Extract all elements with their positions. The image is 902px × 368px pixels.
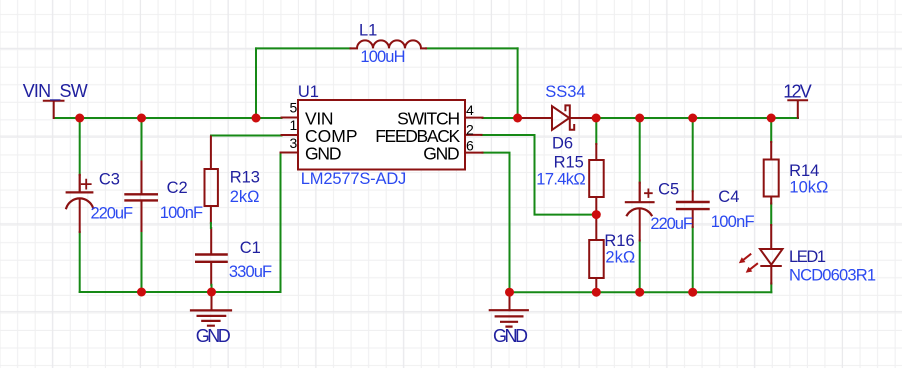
designator C3 <box>99 170 120 188</box>
wire C2 top drop <box>141 118 143 162</box>
svg-text:10kΩ: 10kΩ <box>789 179 828 197</box>
svg-text:C1: C1 <box>240 239 261 257</box>
value LM2577S-ADJ <box>301 170 407 188</box>
wire C1 bottom to rail <box>211 285 213 292</box>
capacitor C4 <box>677 191 708 227</box>
inductor L1 <box>351 40 427 48</box>
node junction rail/C5 <box>635 288 644 297</box>
capacitor C1 <box>196 228 226 285</box>
pin name GND right <box>423 144 460 164</box>
svg-text:C2: C2 <box>167 179 188 197</box>
svg-text:VIN_SW: VIN_SW <box>23 81 88 102</box>
wire C2 bottom to rail <box>141 231 143 292</box>
svg-text:2kΩ: 2kΩ <box>605 248 635 266</box>
node junction out/C5 <box>635 114 644 123</box>
svg-text:100nF: 100nF <box>160 204 203 222</box>
pin 3 stub <box>281 152 299 154</box>
svg-text:LM2577S-ADJ: LM2577S-ADJ <box>301 170 407 188</box>
node junction rail/GND1 <box>207 288 216 297</box>
node junction rail/GND2 <box>505 288 514 297</box>
svg-text:17.4kΩ: 17.4kΩ <box>536 170 585 188</box>
wire C5 top drop <box>639 118 641 183</box>
value SS34 <box>545 83 585 101</box>
svg-text:R15: R15 <box>554 153 584 171</box>
net label GND left <box>196 326 231 346</box>
resistor R16 <box>589 215 604 293</box>
net label VIN_SW <box>23 81 88 102</box>
node junction VIN/C2 <box>137 114 146 123</box>
svg-text:D6: D6 <box>552 134 573 152</box>
wire C3 top drop <box>79 118 81 175</box>
pin number 4 <box>466 102 474 118</box>
pin name SWITCH <box>397 109 460 129</box>
wire L1 left riser <box>255 48 257 118</box>
pin 6 stub <box>465 152 483 154</box>
designator C4 <box>718 188 739 206</box>
designator C1 <box>240 239 261 257</box>
wire C4 bottom to rail <box>692 227 694 292</box>
node junction SWITCH/L1 <box>513 114 522 123</box>
designator R15 <box>554 153 584 171</box>
svg-text:GND: GND <box>493 326 528 346</box>
wire COMP to R13 <box>211 135 282 137</box>
svg-text:220uF: 220uF <box>91 204 134 222</box>
wire VIN_SW main horizontal <box>54 117 282 119</box>
svg-text:C4: C4 <box>718 188 739 206</box>
svg-text:C3: C3 <box>99 170 120 188</box>
pin 1 stub <box>282 134 299 136</box>
wire C3 bottom to rail <box>79 232 81 292</box>
wire L1 top right segment <box>426 47 518 49</box>
pin 4 stub <box>465 117 483 119</box>
value 330uF C1 <box>229 263 272 281</box>
wire pin3 GND down to rail <box>280 153 282 293</box>
net label 12V <box>783 82 812 102</box>
svg-text:220uF: 220uF <box>650 215 693 233</box>
wire right ground rail <box>510 291 772 293</box>
svg-text:L1: L1 <box>359 22 377 40</box>
resistor R14 <box>764 142 779 249</box>
svg-text:12V: 12V <box>783 82 812 102</box>
designator C5 <box>658 181 679 199</box>
op-amp U1 LM2577S-ADJ body <box>298 100 465 170</box>
capacitor C3 <box>66 175 93 232</box>
resistor R15 <box>589 144 604 215</box>
value 100uH <box>360 48 405 66</box>
pin 5 stub <box>282 117 299 119</box>
ground GND2 <box>490 292 528 326</box>
node junction feedback divider <box>592 210 601 219</box>
value 10kΩ <box>789 179 828 197</box>
pin 2 stub <box>465 134 482 136</box>
svg-text:GND: GND <box>305 144 342 164</box>
wire L1 right riser to SWITCH node <box>517 48 519 118</box>
svg-text:LED1: LED1 <box>789 248 826 266</box>
svg-text:330uF: 330uF <box>229 263 272 281</box>
wire left ground rail <box>80 291 281 293</box>
svg-text:100nF: 100nF <box>711 213 755 231</box>
pin number 6 <box>466 137 474 153</box>
wire C4 top drop <box>692 118 694 191</box>
power flag 12V <box>788 100 807 117</box>
designator C2 <box>167 179 188 197</box>
wire LED1 bottom to rail <box>770 284 772 293</box>
pin number 1 <box>290 117 298 133</box>
wire SWITCH pin to node <box>483 117 518 119</box>
value 220uF C3 <box>91 204 134 222</box>
svg-text:2: 2 <box>466 121 474 137</box>
svg-text:1: 1 <box>290 117 298 133</box>
resistor R13 <box>205 137 218 224</box>
svg-text:GND: GND <box>196 326 231 346</box>
value 2kΩ R16 <box>605 248 635 266</box>
diode D6 SS34 <box>518 105 592 129</box>
designator D6 <box>552 134 573 152</box>
value 100nF C4 <box>711 213 755 231</box>
svg-text:R16: R16 <box>604 232 634 250</box>
capacitor C2 <box>126 162 157 232</box>
value 100nF C2 <box>160 204 203 222</box>
designator U1 <box>298 83 319 101</box>
svg-text:R14: R14 <box>789 162 819 180</box>
wire C5 bottom to rail <box>639 241 641 293</box>
wire R14 top drop <box>770 118 772 142</box>
svg-text:4: 4 <box>466 102 474 118</box>
designator R14 <box>789 162 819 180</box>
node junction rail/C2 <box>137 288 146 297</box>
node junction out/R14 <box>767 114 776 123</box>
wire R14 to LED1 <box>770 204 772 226</box>
svg-text:U1: U1 <box>298 83 319 101</box>
pin number 5 <box>290 100 298 116</box>
pin name VIN <box>305 109 334 129</box>
wire C1 top lead speck <box>210 223 212 228</box>
svg-text:GND: GND <box>423 144 460 164</box>
value 220uF C5 <box>650 215 693 233</box>
net label GND right <box>493 326 528 346</box>
wire 12V output net <box>596 117 798 119</box>
pin name FEEDBACK <box>375 126 460 146</box>
wire FEEDBACK to divider <box>482 135 597 215</box>
value 2kΩ R13 <box>230 188 260 206</box>
designator R13 <box>230 168 260 186</box>
svg-text:2kΩ: 2kΩ <box>230 188 260 206</box>
svg-text:6: 6 <box>466 137 474 153</box>
svg-text:3: 3 <box>290 135 298 151</box>
pin name COMP <box>305 126 358 146</box>
designator R16 <box>604 232 634 250</box>
node junction rail/C4 <box>688 288 697 297</box>
ground GND1 <box>191 292 231 326</box>
svg-text:NCD0603R1: NCD0603R1 <box>789 267 876 285</box>
node junction rail/R16 <box>592 288 601 297</box>
value 17.4kΩ <box>536 170 585 188</box>
wire L1 top left segment <box>256 47 351 49</box>
svg-text:5: 5 <box>290 100 298 116</box>
LED LED1 <box>739 249 783 284</box>
pin number 3 <box>290 135 298 151</box>
wire R15 top <box>595 118 597 144</box>
svg-text:C5: C5 <box>658 181 679 199</box>
wire pin6 GND down <box>483 153 510 293</box>
node junction out/C4 <box>688 114 697 123</box>
pin name GND left <box>305 144 342 164</box>
power flag VIN_SW <box>44 101 64 118</box>
svg-text:SS34: SS34 <box>545 83 585 101</box>
designator LED1 <box>789 248 826 266</box>
svg-text:R13: R13 <box>230 168 260 186</box>
pin number 2 <box>466 121 474 137</box>
node junction VIN/L1 <box>252 114 261 123</box>
value NCD0603R1 <box>789 267 876 285</box>
svg-text:100uH: 100uH <box>360 48 405 66</box>
node junction VIN/C3 <box>75 114 84 123</box>
designator L1 <box>359 22 377 40</box>
node junction D6/R15 <box>592 114 601 123</box>
capacitor C5 <box>626 183 654 241</box>
